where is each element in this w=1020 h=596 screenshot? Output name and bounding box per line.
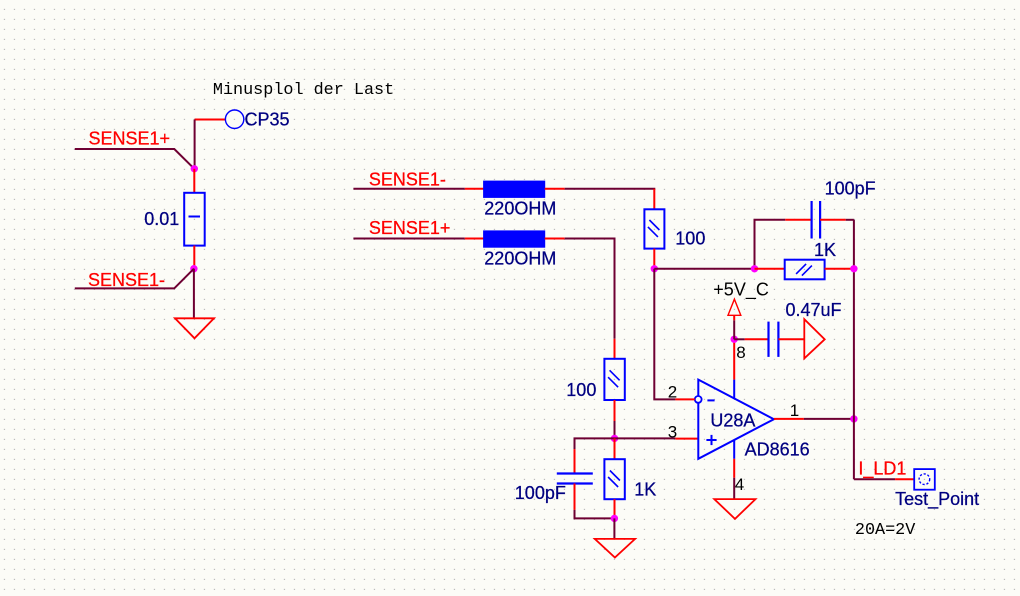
wire down to pin 2 xyxy=(654,269,675,400)
plus sign xyxy=(706,435,716,445)
pin cap top xyxy=(574,449,576,473)
inverting input bubble xyxy=(695,396,702,403)
wire xyxy=(353,188,464,190)
pin 4 xyxy=(733,440,735,478)
junction xyxy=(611,515,618,522)
resistor 1K (mid) xyxy=(604,459,624,499)
svg-text:1K: 1K xyxy=(634,480,656,500)
junction xyxy=(850,265,857,272)
svg-text:2: 2 xyxy=(668,382,677,401)
svg-text:0.47uF: 0.47uF xyxy=(786,300,842,320)
svg-text:100: 100 xyxy=(566,380,596,400)
wire xyxy=(575,510,615,519)
pin cap bottom xyxy=(574,484,576,510)
svg-text:220OHM: 220OHM xyxy=(484,248,556,268)
svg-text:SENSE1+: SENSE1+ xyxy=(89,129,171,149)
pin 1K left xyxy=(755,268,785,270)
pin R0.01 bottom xyxy=(193,246,195,269)
resistor 100 (top right) xyxy=(644,209,664,248)
svg-text:SENSE1+: SENSE1+ xyxy=(369,218,451,238)
wire SENSE1- xyxy=(75,269,194,289)
resistor 220OHM (top) xyxy=(484,181,545,197)
wire to ground xyxy=(613,518,615,539)
wire to feedback row xyxy=(654,268,754,270)
pin 1 xyxy=(774,418,804,420)
svg-text:100pF: 100pF xyxy=(825,179,876,199)
wire xyxy=(846,219,854,221)
pin test point xyxy=(895,478,914,480)
svg-text:100: 100 xyxy=(675,228,705,248)
wire xyxy=(565,239,615,339)
pin R0.01 top xyxy=(193,169,195,193)
svg-text:0.01: 0.01 xyxy=(144,209,179,229)
svg-text:220OHM: 220OHM xyxy=(484,199,556,219)
wire pin1 to junction xyxy=(804,418,854,420)
wire xyxy=(353,238,464,240)
junction xyxy=(611,435,618,442)
pin R100 mid top xyxy=(614,339,616,359)
ground xyxy=(714,499,755,519)
resistor 100 (mid) xyxy=(604,359,624,400)
wire xyxy=(614,421,616,438)
wire junction right xyxy=(734,338,745,340)
pin 3 xyxy=(675,438,698,440)
pin cap right xyxy=(820,219,846,221)
op-amp U28A xyxy=(698,380,774,459)
svg-text:Minusplol der Last: Minusplol der Last xyxy=(213,81,394,100)
pin R100 mid bottom xyxy=(614,400,616,421)
svg-text:20A=2V: 20A=2V xyxy=(855,521,915,540)
power port arrow xyxy=(804,319,824,358)
pin 1K bottom xyxy=(614,499,616,518)
junction xyxy=(850,415,857,422)
junction xyxy=(191,165,198,172)
wire to cap branch xyxy=(575,438,615,449)
pin xyxy=(545,188,565,190)
svg-text:AD8616: AD8616 xyxy=(745,440,810,460)
svg-text:I_LD1: I_LD1 xyxy=(858,458,906,479)
svg-text:SENSE1-: SENSE1- xyxy=(88,270,165,290)
resistor 220OHM (bottom) xyxy=(484,231,545,247)
test point TP xyxy=(914,469,935,490)
capacitor 100pF (top) xyxy=(812,201,821,239)
wire to test point xyxy=(854,478,895,480)
minus sign xyxy=(707,399,714,401)
pin 1K right xyxy=(825,268,854,270)
resistor 0.01 xyxy=(184,193,205,246)
ground xyxy=(595,539,635,558)
junction xyxy=(651,265,658,272)
pin 1K top xyxy=(614,438,616,459)
svg-text:1: 1 xyxy=(790,401,799,420)
svg-text:100pF: 100pF xyxy=(515,483,566,503)
svg-text:8: 8 xyxy=(736,343,745,362)
svg-text:Test_Point: Test_Point xyxy=(895,489,979,510)
pin of CP35 xyxy=(195,119,226,121)
pin cap left xyxy=(745,338,769,340)
svg-text:+5V_C: +5V_C xyxy=(713,280,769,301)
test pad CP35 xyxy=(225,110,243,128)
pin 2 xyxy=(675,398,694,400)
junction xyxy=(190,265,197,272)
junction xyxy=(751,265,758,272)
svg-text:3: 3 xyxy=(668,422,677,441)
wire pin4 to ground xyxy=(733,478,735,499)
wire SENSE1+ xyxy=(75,149,195,169)
pin R100 top xyxy=(653,189,655,210)
wire junction to pin 3 xyxy=(615,437,676,439)
power port +5V_C xyxy=(728,299,741,320)
svg-text:SENSE1-: SENSE1- xyxy=(369,169,446,189)
wire from CP35 down xyxy=(194,120,196,169)
pin xyxy=(545,238,565,240)
svg-text:U28A: U28A xyxy=(710,410,755,430)
wire xyxy=(565,188,656,190)
capacitor 0.47uF xyxy=(769,322,779,357)
pin 8 xyxy=(733,339,735,399)
feedback vertical wire xyxy=(853,220,855,479)
svg-text:1K: 1K xyxy=(814,240,836,260)
pin R100 bottom xyxy=(653,249,655,269)
svg-text:CP35: CP35 xyxy=(245,109,290,129)
capacitor 100pF (mid) xyxy=(557,474,593,484)
pin xyxy=(465,188,484,190)
pin cap right xyxy=(778,338,804,340)
ground xyxy=(175,318,214,338)
wire junction up xyxy=(733,320,735,339)
svg-text:4: 4 xyxy=(735,475,744,494)
pin xyxy=(465,238,484,240)
wire top feedback left xyxy=(755,220,786,269)
resistor 1K (feedback) xyxy=(785,260,825,280)
pin cap left xyxy=(785,219,811,221)
wire to ground xyxy=(193,269,195,319)
junction xyxy=(731,336,738,343)
